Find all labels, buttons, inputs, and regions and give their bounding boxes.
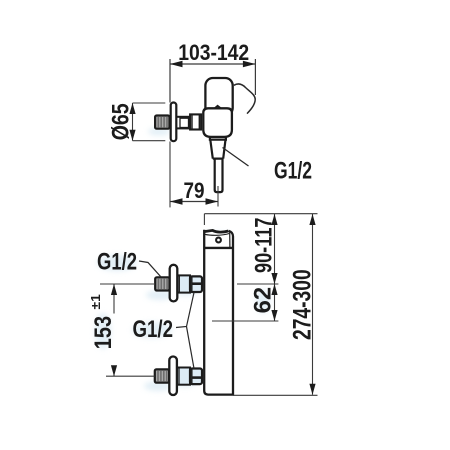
svg-text:153: 153 <box>90 316 117 349</box>
svg-text:103-142: 103-142 <box>178 40 249 65</box>
svg-text:62: 62 <box>250 287 277 314</box>
svg-text:G1/2: G1/2 <box>274 158 312 185</box>
svg-text:G1/2: G1/2 <box>133 316 174 343</box>
svg-text:90-117: 90-117 <box>251 218 278 274</box>
svg-text:G1/2: G1/2 <box>97 249 137 276</box>
svg-text:274-300: 274-300 <box>289 269 317 340</box>
svg-text:79: 79 <box>184 178 205 203</box>
svg-text:Ø65: Ø65 <box>108 103 135 140</box>
svg-text:±1: ±1 <box>88 294 103 309</box>
